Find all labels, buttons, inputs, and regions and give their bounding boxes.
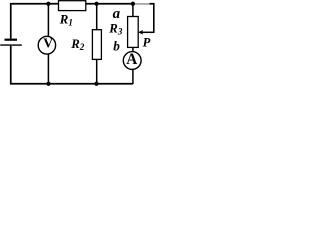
wire stub R3 to ammeter (132, 47, 134, 52)
svg-text:R2: R2 (70, 37, 85, 52)
wire stub node a to R3 (132, 4, 134, 17)
svg-text:b: b (113, 39, 120, 54)
wire R2 branch lower (96, 59, 98, 83)
svg-text:P: P (143, 35, 151, 49)
wire right edge down to slider (153, 3, 155, 32)
wire top right corner segment (150, 3, 154, 5)
resistor R1 box (59, 1, 86, 11)
svg-text:V: V (43, 36, 53, 51)
wire top mid segment (R1 right to node a) (86, 3, 133, 5)
node dot bottom R2-branch (94, 82, 98, 86)
wire left edge lower (battery to bottom corner) (10, 46, 12, 84)
voltmeter V circle (38, 36, 55, 54)
svg-text:R1: R1 (59, 13, 73, 28)
node dot bottom V-branch (46, 82, 50, 86)
wire V branch lower (47, 54, 49, 84)
node dot top R2-branch (95, 2, 99, 6)
node a dot on top wire (131, 2, 135, 6)
svg-text:a: a (113, 6, 121, 22)
wire ammeter to bottom corner (132, 69, 134, 84)
slider arrow head P (138, 30, 143, 35)
resistor R2 box (92, 30, 101, 60)
ammeter A circle (123, 52, 141, 70)
svg-text:R3: R3 (108, 22, 123, 37)
wire V branch upper (47, 4, 49, 37)
wire top-left segment (11, 3, 59, 5)
svg-text:A: A (126, 51, 137, 68)
battery long thin plate (0, 44, 22, 46)
wire top right faded segment (133, 3, 150, 5)
wire slider lead (142, 31, 155, 33)
node dot top V-branch (46, 2, 50, 6)
rheostat R3 box (128, 17, 139, 48)
battery short thick plate (5, 39, 18, 41)
wire R2 branch upper (96, 4, 98, 30)
wire left edge upper (corner to battery) (10, 3, 12, 39)
wire bottom (10, 83, 133, 85)
